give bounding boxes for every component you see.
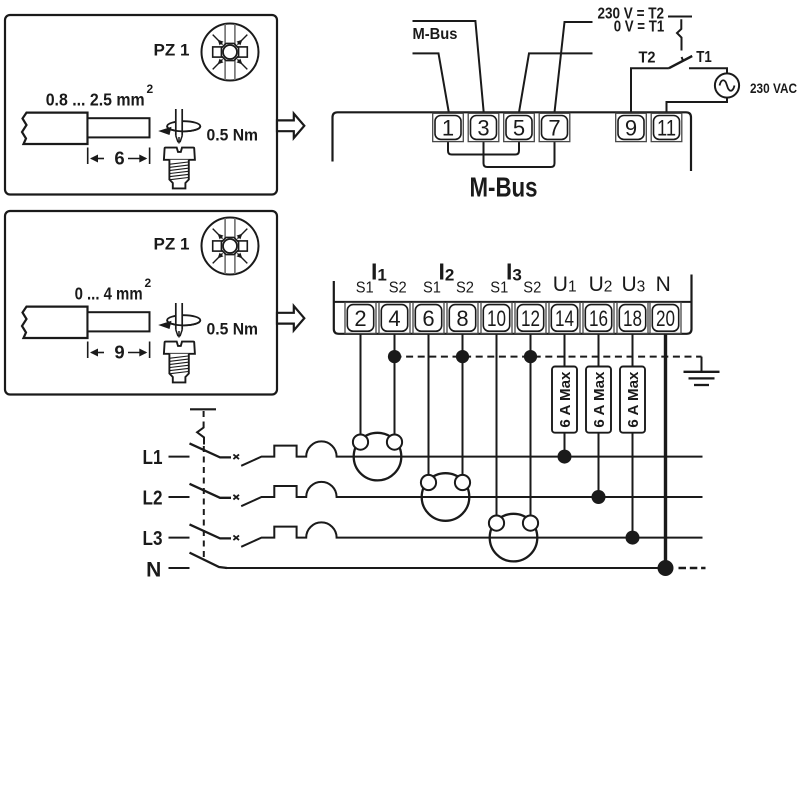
breaker linkage (dashed) lower <box>203 446 205 560</box>
svg-text:11: 11 <box>657 115 676 140</box>
svg-text:16: 16 <box>589 306 608 331</box>
CT CT3 (L3) S2 terminal <box>523 516 538 531</box>
svg-text:9: 9 <box>114 342 124 363</box>
strip length dimension <box>88 342 150 359</box>
svg-text:18: 18 <box>623 306 642 331</box>
breaker blade L2 <box>190 484 232 498</box>
terminal 14 <box>549 302 580 333</box>
current transformer CT1 (L1) <box>354 433 402 481</box>
breaker blade L1 <box>190 443 232 457</box>
terminal 11 <box>651 113 682 141</box>
terminal 8 <box>447 302 478 333</box>
svg-text:2: 2 <box>354 306 366 331</box>
svg-text:10: 10 <box>487 306 506 331</box>
breaker blade N <box>190 553 228 568</box>
meter housing outline (measuring row) <box>334 275 692 334</box>
svg-text:6 A Max: 6 A Max <box>591 371 608 428</box>
breaker actuator bar <box>190 408 216 410</box>
svg-text:5: 5 <box>513 115 525 140</box>
wire terminal 7 to 230V/T2 line <box>555 22 593 112</box>
strip length dimension <box>88 148 150 165</box>
terminal screw icon <box>164 148 195 189</box>
svg-text:M-Bus: M-Bus <box>470 171 538 202</box>
wire terminal 18 (U3) to L3 <box>632 334 634 538</box>
current transformer CT3 (L3) <box>490 514 538 562</box>
CT CT2 (L2) S2 terminal <box>455 475 470 490</box>
svg-text:1: 1 <box>442 115 454 140</box>
fuse 6 A Max on wire x=564.5 <box>552 367 577 433</box>
terminal 20 <box>650 302 681 333</box>
wire terminal 5 to 0V/T1 line <box>519 53 593 112</box>
wire L1 supply stub <box>169 456 190 458</box>
cable conductor (stripped length) <box>88 118 150 137</box>
svg-text:S2: S2 <box>456 279 474 296</box>
wire T1 contact to AC source <box>689 68 727 73</box>
switch T2/T1 blade <box>669 56 692 68</box>
svg-text:L3: L3 <box>143 527 163 550</box>
junction dot S2 I3 <box>524 350 537 363</box>
wire AC source to terminal 11 <box>667 98 728 113</box>
svg-text:0.8 ... 2.5 mm: 0.8 ... 2.5 mm <box>46 90 145 110</box>
wire terminal 10 to CT3 S1 <box>496 334 498 516</box>
CT CT1 (L1) S1 terminal <box>353 435 368 450</box>
terminal 3 <box>468 113 499 141</box>
svg-text:L1: L1 <box>143 446 163 469</box>
wire terminal 14 (U1) to L1 <box>564 334 566 457</box>
jumper terminal 1 to terminal 5 <box>448 141 519 155</box>
svg-text:14: 14 <box>555 306 574 331</box>
svg-text:4: 4 <box>388 306 400 331</box>
svg-text:L2: L2 <box>143 487 163 510</box>
svg-text:0 V = T1: 0 V = T1 <box>614 19 665 36</box>
earth bus drop wire <box>701 357 703 372</box>
junction dot S2 I2 <box>456 350 469 363</box>
svg-text:U2: U2 <box>589 273 613 296</box>
ground symbol <box>684 372 720 385</box>
wire N supply stub <box>169 567 190 569</box>
PZ1 pozidriv screw head icon <box>202 218 259 275</box>
info box border <box>5 211 277 395</box>
svg-text:2: 2 <box>147 82 154 96</box>
wire L2 after breaker with overcurrent bumps <box>241 482 702 506</box>
svg-text:S1: S1 <box>423 279 441 296</box>
wire T2 to terminal 9 <box>631 68 669 112</box>
svg-text:S2: S2 <box>523 279 541 296</box>
wire M-Bus line A to terminal 3 <box>413 21 484 112</box>
junction dot U3/L3 <box>626 531 640 545</box>
arrow: box2 to measuring terminal row <box>277 306 304 330</box>
svg-text:0 ... 4 mm: 0 ... 4 mm <box>75 284 143 304</box>
svg-text:8: 8 <box>456 306 468 331</box>
svg-text:9: 9 <box>625 115 637 140</box>
terminal 1 <box>433 113 464 141</box>
wire terminal 6 to CT2 S1 <box>428 334 430 476</box>
terminal 7 <box>539 113 570 141</box>
info box border <box>5 15 277 195</box>
svg-text:U3: U3 <box>622 273 646 296</box>
terminal 4 <box>379 302 410 333</box>
svg-text:20: 20 <box>656 306 675 331</box>
contact x-mark L2 <box>233 495 239 500</box>
terminal 18 <box>617 302 648 333</box>
contact x-mark L1 <box>233 454 239 459</box>
svg-text:S1: S1 <box>356 279 374 296</box>
wire terminal 4 to CT1 S2 <box>394 334 396 435</box>
junction dot S2 I1 <box>388 350 401 363</box>
svg-text:N: N <box>656 273 671 296</box>
wire terminal 20 (N, bold) to N line <box>664 334 667 568</box>
breaker linkage (dashed) upper <box>203 411 205 425</box>
fuse 6 A Max on wire x=632.5 <box>620 367 645 433</box>
terminal 6 <box>413 302 444 333</box>
meter housing outline (M-Bus row) <box>333 112 692 171</box>
wire terminal 16 (U2) to L2 <box>598 334 600 497</box>
svg-text:PZ 1: PZ 1 <box>154 236 190 254</box>
svg-text:I3: I3 <box>506 259 522 285</box>
cable insulation (stripped wire icon) <box>22 113 88 144</box>
wire L3 supply stub <box>169 537 190 539</box>
svg-text:3: 3 <box>477 115 489 140</box>
CT CT1 (L1) S2 terminal <box>387 435 402 450</box>
svg-text:S1: S1 <box>490 279 508 296</box>
screwdriver + torque rotation arrow <box>167 109 200 144</box>
terminal screw icon <box>164 342 195 383</box>
wire terminal 8 to CT2 S2 <box>462 334 464 476</box>
wire terminal 12 to CT3 S2 <box>530 334 532 516</box>
svg-text:6: 6 <box>114 148 124 169</box>
svg-text:2: 2 <box>145 276 152 290</box>
svg-text:6 A Max: 6 A Max <box>625 371 642 428</box>
cable insulation (stripped wire icon) <box>22 307 88 338</box>
svg-text:6: 6 <box>422 306 434 331</box>
fuse 6 A Max on wire x=598.5 <box>586 367 611 433</box>
jumper terminal 3 to terminal 7 <box>484 141 555 167</box>
tariff switch vertical wire with kink <box>677 19 682 50</box>
wire L1 after breaker with overcurrent bumps <box>241 441 702 465</box>
junction dot N <box>658 560 674 576</box>
svg-text:7: 7 <box>548 115 560 140</box>
arrow: box1 to M-Bus terminal row <box>277 114 304 138</box>
svg-text:12: 12 <box>521 306 540 331</box>
svg-text:S2: S2 <box>389 279 407 296</box>
CT CT3 (L3) S1 terminal <box>489 516 504 531</box>
wire terminal 2 to CT1 S1 <box>360 334 362 435</box>
svg-text:M-Bus: M-Bus <box>413 26 458 43</box>
tariff input contact line <box>668 16 692 18</box>
breaker blade L3 <box>190 524 232 538</box>
svg-text:U1: U1 <box>553 273 577 296</box>
svg-text:N: N <box>146 559 161 582</box>
terminal 5 <box>504 113 535 141</box>
junction dot U2/L2 <box>592 490 606 504</box>
wire N line <box>225 567 666 569</box>
PZ1 pozidriv screw head icon <box>202 24 259 81</box>
junction dot U1/L1 <box>558 450 572 464</box>
svg-text:0.5 Nm: 0.5 Nm <box>207 319 259 338</box>
dashed S2 common earth bus <box>395 356 702 358</box>
terminal 10 <box>481 302 512 333</box>
svg-text:6 A Max: 6 A Max <box>557 371 574 428</box>
svg-text:PZ 1: PZ 1 <box>154 42 190 60</box>
breaker linkage kink <box>197 425 204 445</box>
contact x-mark L3 <box>233 535 239 540</box>
terminal 12 <box>515 302 546 333</box>
cable conductor (stripped length) <box>88 312 150 331</box>
terminal 2 <box>345 302 376 333</box>
svg-text:0.5 Nm: 0.5 Nm <box>207 125 259 144</box>
wire M-Bus line B to terminal 1 <box>413 53 449 112</box>
terminal 9 <box>616 113 647 141</box>
screwdriver + torque rotation arrow <box>167 303 200 338</box>
CT CT2 (L2) S1 terminal <box>421 475 436 490</box>
AC source 230 VAC <box>715 73 739 97</box>
wire L3 after breaker with overcurrent bumps <box>241 522 702 546</box>
current transformer CT2 (L2) <box>422 473 470 521</box>
terminal 16 <box>583 302 614 333</box>
svg-text:230 VAC: 230 VAC <box>750 81 797 96</box>
wire N continuation (dashed) <box>679 567 706 569</box>
housing top edge behind terminals <box>334 301 692 303</box>
wire L2 supply stub <box>169 496 190 498</box>
svg-text:T2: T2 <box>639 50 656 67</box>
svg-text:T1: T1 <box>696 49 712 66</box>
